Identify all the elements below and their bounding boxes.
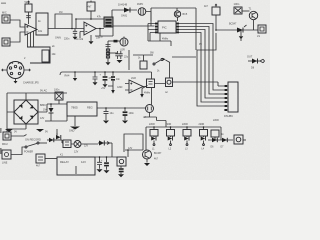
capacitor C3 xyxy=(103,107,114,123)
wire J2 to U1 xyxy=(10,32,25,42)
wire Q3 down xyxy=(253,20,255,30)
diode chain wire xyxy=(208,139,233,141)
connector CON1 xyxy=(224,82,238,118)
gain box R2 xyxy=(36,13,48,35)
terminal T3 xyxy=(36,129,48,134)
power arrow 2 xyxy=(140,86,147,98)
ground U5 xyxy=(69,116,80,133)
photocell L2 xyxy=(108,37,128,52)
connector J2 xyxy=(2,38,10,46)
resistor R9 xyxy=(63,140,89,148)
capacitor C5 xyxy=(97,156,103,172)
diode D1 xyxy=(112,3,137,18)
op-amp U1 xyxy=(25,24,37,35)
wire C2 to Q3 xyxy=(242,10,250,12)
wire U3 bottom xyxy=(148,24,171,47)
op-amp U4 xyxy=(125,77,143,93)
wire switch rail xyxy=(133,54,153,56)
transistor Q1 xyxy=(174,11,188,17)
regulator U5 xyxy=(67,102,97,116)
wire mid vertical xyxy=(128,50,130,70)
LED D14 xyxy=(201,136,206,151)
wire loop L xyxy=(124,134,143,152)
capacitor C14 xyxy=(54,89,63,105)
bus wire net P5 xyxy=(179,33,224,103)
transistor Q3 xyxy=(249,8,258,20)
capacitor C10 xyxy=(73,71,77,81)
wire base rail xyxy=(216,29,258,31)
capacitor C6 xyxy=(101,156,110,173)
wire U2 plus input xyxy=(76,32,84,42)
driver B3 xyxy=(117,157,126,177)
wire X1 up xyxy=(111,10,113,17)
label BR1 xyxy=(40,104,46,120)
label misc smudges xyxy=(52,38,203,73)
bridge BR1 xyxy=(14,93,47,129)
node C xyxy=(215,29,217,31)
trimmer RV1 xyxy=(25,1,33,12)
connector J3 xyxy=(2,130,11,146)
resistor R3 xyxy=(87,1,95,12)
diode D2 xyxy=(43,103,54,121)
enclosure box E1 xyxy=(155,57,218,94)
ground R7 xyxy=(106,62,111,65)
node B xyxy=(99,28,101,30)
indicator B4 xyxy=(234,135,246,144)
capacitor C11 xyxy=(93,71,98,85)
IC U3 xyxy=(155,21,179,33)
feedback wire net F xyxy=(75,16,112,29)
bus wire net P3 xyxy=(179,27,224,95)
wire LP1 right xyxy=(57,129,98,144)
edge mark 2 xyxy=(0,148,2,154)
ground U2 xyxy=(89,41,94,44)
resistor R15 xyxy=(211,130,224,140)
wires U1 bottom xyxy=(28,32,34,48)
wire K1 out rail xyxy=(95,150,143,157)
resistor R11 xyxy=(150,126,158,136)
wire bottom link xyxy=(45,116,67,121)
LED D11 xyxy=(151,136,156,151)
relay K1 xyxy=(57,151,95,176)
wire J3 right xyxy=(11,135,27,137)
diode D5 xyxy=(98,141,112,146)
switch SW1 xyxy=(24,142,47,154)
wire R3 down xyxy=(90,11,92,19)
resistor R6 xyxy=(140,55,147,69)
diode D3 xyxy=(47,138,62,142)
bus wire net P4 xyxy=(179,30,224,99)
capacitor C8 pair xyxy=(108,51,129,63)
resistor R10 xyxy=(36,154,45,168)
resistor network box R1 xyxy=(24,47,56,63)
wire mid link xyxy=(62,143,74,144)
wire L1 to U3 xyxy=(146,12,151,27)
wire DC node xyxy=(47,104,67,112)
transistor Q4 xyxy=(229,23,247,33)
resistor R5 xyxy=(204,4,220,15)
op-amp U2 xyxy=(84,22,96,35)
oscillator G1 xyxy=(143,105,154,120)
wire R10 to K1 xyxy=(45,158,57,160)
wire Q1 to U3 xyxy=(177,17,179,21)
scan noise overlay xyxy=(0,0,1,1)
LED D12 xyxy=(168,136,173,151)
diode D6 xyxy=(211,138,218,149)
diode D7 xyxy=(221,138,228,149)
diode D8 xyxy=(247,56,265,70)
transistor Q5 xyxy=(143,150,162,161)
capacitor C13 xyxy=(111,71,121,83)
capacitor C2 xyxy=(234,2,243,14)
AC rail wire xyxy=(7,90,67,94)
resistor R14 xyxy=(200,126,208,136)
ground Q5 xyxy=(144,163,150,166)
wire AC left xyxy=(7,93,26,129)
lamp L1 xyxy=(137,3,146,15)
wire U1 out to U2 xyxy=(48,28,84,30)
bus wire net P2 xyxy=(179,24,224,91)
DIN connector J5 xyxy=(2,62,40,85)
capacitor C1 xyxy=(55,29,78,41)
bus wire net P6 xyxy=(197,33,224,106)
label row LED resistors xyxy=(149,119,219,126)
wire J1 to U1 xyxy=(10,20,25,27)
diode D4 xyxy=(56,133,62,143)
resistor R13 xyxy=(183,126,191,136)
capacitor C4 xyxy=(122,107,134,123)
capacitor C7 xyxy=(239,30,243,41)
speaker LS1 xyxy=(257,25,266,38)
node A xyxy=(71,28,73,30)
capacitor C12 xyxy=(100,71,114,87)
wire X1 to U3 xyxy=(113,25,155,27)
feedback loop R4 xyxy=(55,11,72,29)
LED rail wire xyxy=(146,127,221,150)
wire Q5 emitter xyxy=(146,159,148,163)
wire U2 out xyxy=(95,27,113,36)
lamp LP1 xyxy=(74,141,81,148)
crystal X2 xyxy=(144,79,155,95)
resistor R12 xyxy=(167,126,175,136)
wire U4 out net P1 xyxy=(143,85,224,88)
connector J1 xyxy=(2,11,10,24)
long rail wire net RA xyxy=(60,72,152,105)
wire RV1 to U1 xyxy=(26,12,31,24)
resistor ladder R7 xyxy=(99,36,111,63)
wire R5 down xyxy=(215,15,217,30)
wire jog xyxy=(144,113,166,128)
switch SW2 xyxy=(153,58,170,65)
top rail wire xyxy=(151,8,196,50)
LED D13 xyxy=(184,136,189,151)
wire J4 to SW1 xyxy=(11,147,25,155)
wire U2 bottom xyxy=(90,35,92,41)
power arrow +5V xyxy=(101,83,123,94)
wire D5 down xyxy=(111,143,113,157)
+5 rail wire xyxy=(97,107,146,109)
connector J4 xyxy=(2,150,11,165)
terminal T2 xyxy=(5,129,17,134)
edge mark 1 xyxy=(0,128,2,133)
box X1 xyxy=(104,17,113,27)
corner smudge xyxy=(1,3,6,4)
